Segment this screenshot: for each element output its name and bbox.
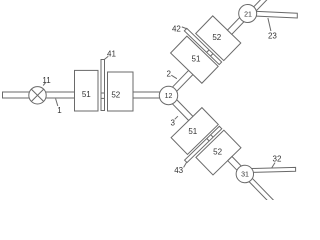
wire: shaft to node 21 (227, 17, 244, 34)
svg-text:23: 23 (268, 32, 277, 41)
wire: shaft 52 to node 12 (133, 92, 160, 98)
svg-text:1: 1 (57, 106, 62, 115)
leader line for label 41 (104, 56, 108, 60)
svg-text:43: 43 (174, 166, 183, 175)
gearbox 51 (left branch) (75, 70, 99, 111)
node 21 circle (235, 1, 260, 26)
leader line for label 1 (56, 99, 58, 106)
svg-text:51: 51 (192, 55, 201, 64)
gearbox 52 (left branch) (108, 72, 134, 111)
svg-text:11: 11 (42, 76, 51, 85)
svg-text:52: 52 (213, 148, 222, 157)
leader line for label 32 (272, 163, 276, 169)
svg-text:21: 21 (244, 12, 252, 19)
svg-text:32: 32 (273, 155, 282, 164)
leader line for label 43 (184, 162, 187, 167)
wire: continuation shaft beyond 21 (247, 0, 291, 17)
plate 43 (185, 126, 222, 162)
wire: shaft to node 31 (228, 156, 243, 172)
leader line for label 2 (171, 75, 177, 79)
svg-text:51: 51 (188, 127, 197, 136)
upper-right branch group (148, 0, 299, 103)
node 12 circle (159, 86, 177, 104)
leader line for label 3 (175, 116, 178, 119)
leader line for label 23 (268, 18, 271, 31)
wire: shaft 2 from node 12 (169, 70, 193, 94)
gearbox 52 (lower branch) (196, 130, 241, 175)
leader line for label 42 (182, 27, 188, 29)
wire: output shaft 23 (254, 11, 297, 18)
gearbox 51 (lower branch) (171, 108, 218, 155)
leader line for label 11 (43, 82, 46, 85)
svg-text:42: 42 (172, 24, 181, 33)
wire: shaft 3 from node 12 (169, 97, 193, 121)
wire: output shaft 32 (252, 167, 296, 172)
gearbox 51 (upper branch) (171, 36, 219, 83)
gearbox 52 (upper branch) (196, 16, 241, 61)
svg-text:3: 3 (170, 119, 175, 128)
node 31 circle (233, 162, 258, 187)
lower-right branch group (148, 88, 297, 239)
svg-text:41: 41 (107, 50, 116, 59)
coupling 11 (circle with X) (29, 87, 46, 104)
plate 42 (184, 28, 221, 64)
svg-text:52: 52 (111, 90, 120, 99)
svg-text:2: 2 (166, 70, 171, 79)
wire: continuation shaft beyond 31 (243, 172, 287, 217)
svg-text:12: 12 (165, 93, 173, 100)
svg-text:51: 51 (82, 90, 91, 99)
svg-text:52: 52 (212, 33, 221, 42)
wire: left input shaft 1 (3, 92, 75, 98)
plate 41 (101, 60, 105, 111)
svg-text:31: 31 (241, 171, 249, 178)
